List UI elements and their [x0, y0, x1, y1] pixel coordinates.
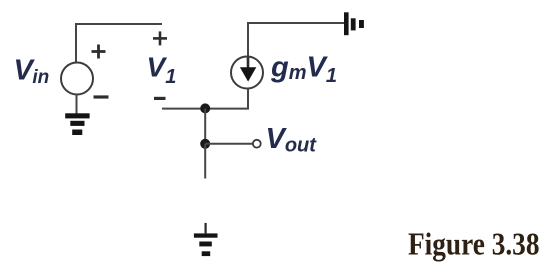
junction dot node 2	[200, 139, 210, 149]
wire node2 to Vout terminal	[205, 143, 252, 145]
junction dot node 1	[200, 103, 210, 113]
svg-text:Vout: Vout	[266, 123, 318, 157]
svg-text:V1: V1	[147, 52, 177, 89]
wire current source bottom lead	[162, 88, 248, 108]
voltage source Vin	[61, 63, 93, 95]
svg-text:Vin: Vin	[14, 55, 50, 89]
Vout terminal	[253, 140, 261, 148]
V1 plus sign	[153, 31, 167, 45]
wire node2 down toward ground	[204, 144, 206, 179]
svg-text:Figure 3.38: Figure 3.38	[408, 226, 540, 262]
ground bottom	[194, 233, 218, 256]
wire from Vin top to V1 + terminal	[76, 24, 162, 63]
Vin minus sign	[94, 95, 109, 98]
svg-text:gmV1: gmV1	[270, 52, 337, 87]
controlled current source gmV1	[231, 57, 263, 89]
wire current source top to supply rail	[248, 23, 345, 57]
label gmV1	[270, 52, 337, 87]
ground bottom stub	[205, 223, 207, 234]
wire node1 to node2	[204, 109, 206, 144]
supply rail symbol top right	[344, 12, 364, 35]
wire Vin to ground	[76, 94, 78, 114]
ground below Vin	[65, 113, 89, 135]
label Vin	[14, 55, 50, 89]
Vin plus sign	[92, 45, 106, 59]
V1 minus sign	[154, 97, 166, 100]
label V1	[147, 52, 177, 89]
caption Figure 3.38	[408, 226, 540, 262]
label Vout	[266, 123, 318, 157]
